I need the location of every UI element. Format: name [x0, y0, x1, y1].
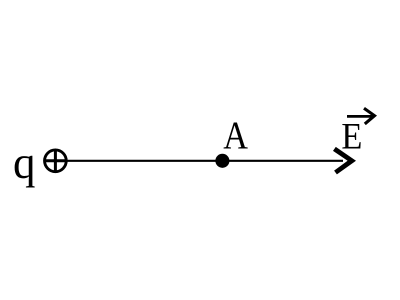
- svg-text:q: q: [13, 138, 36, 188]
- svg-text:A: A: [223, 113, 248, 157]
- svg-text:E: E: [341, 115, 362, 156]
